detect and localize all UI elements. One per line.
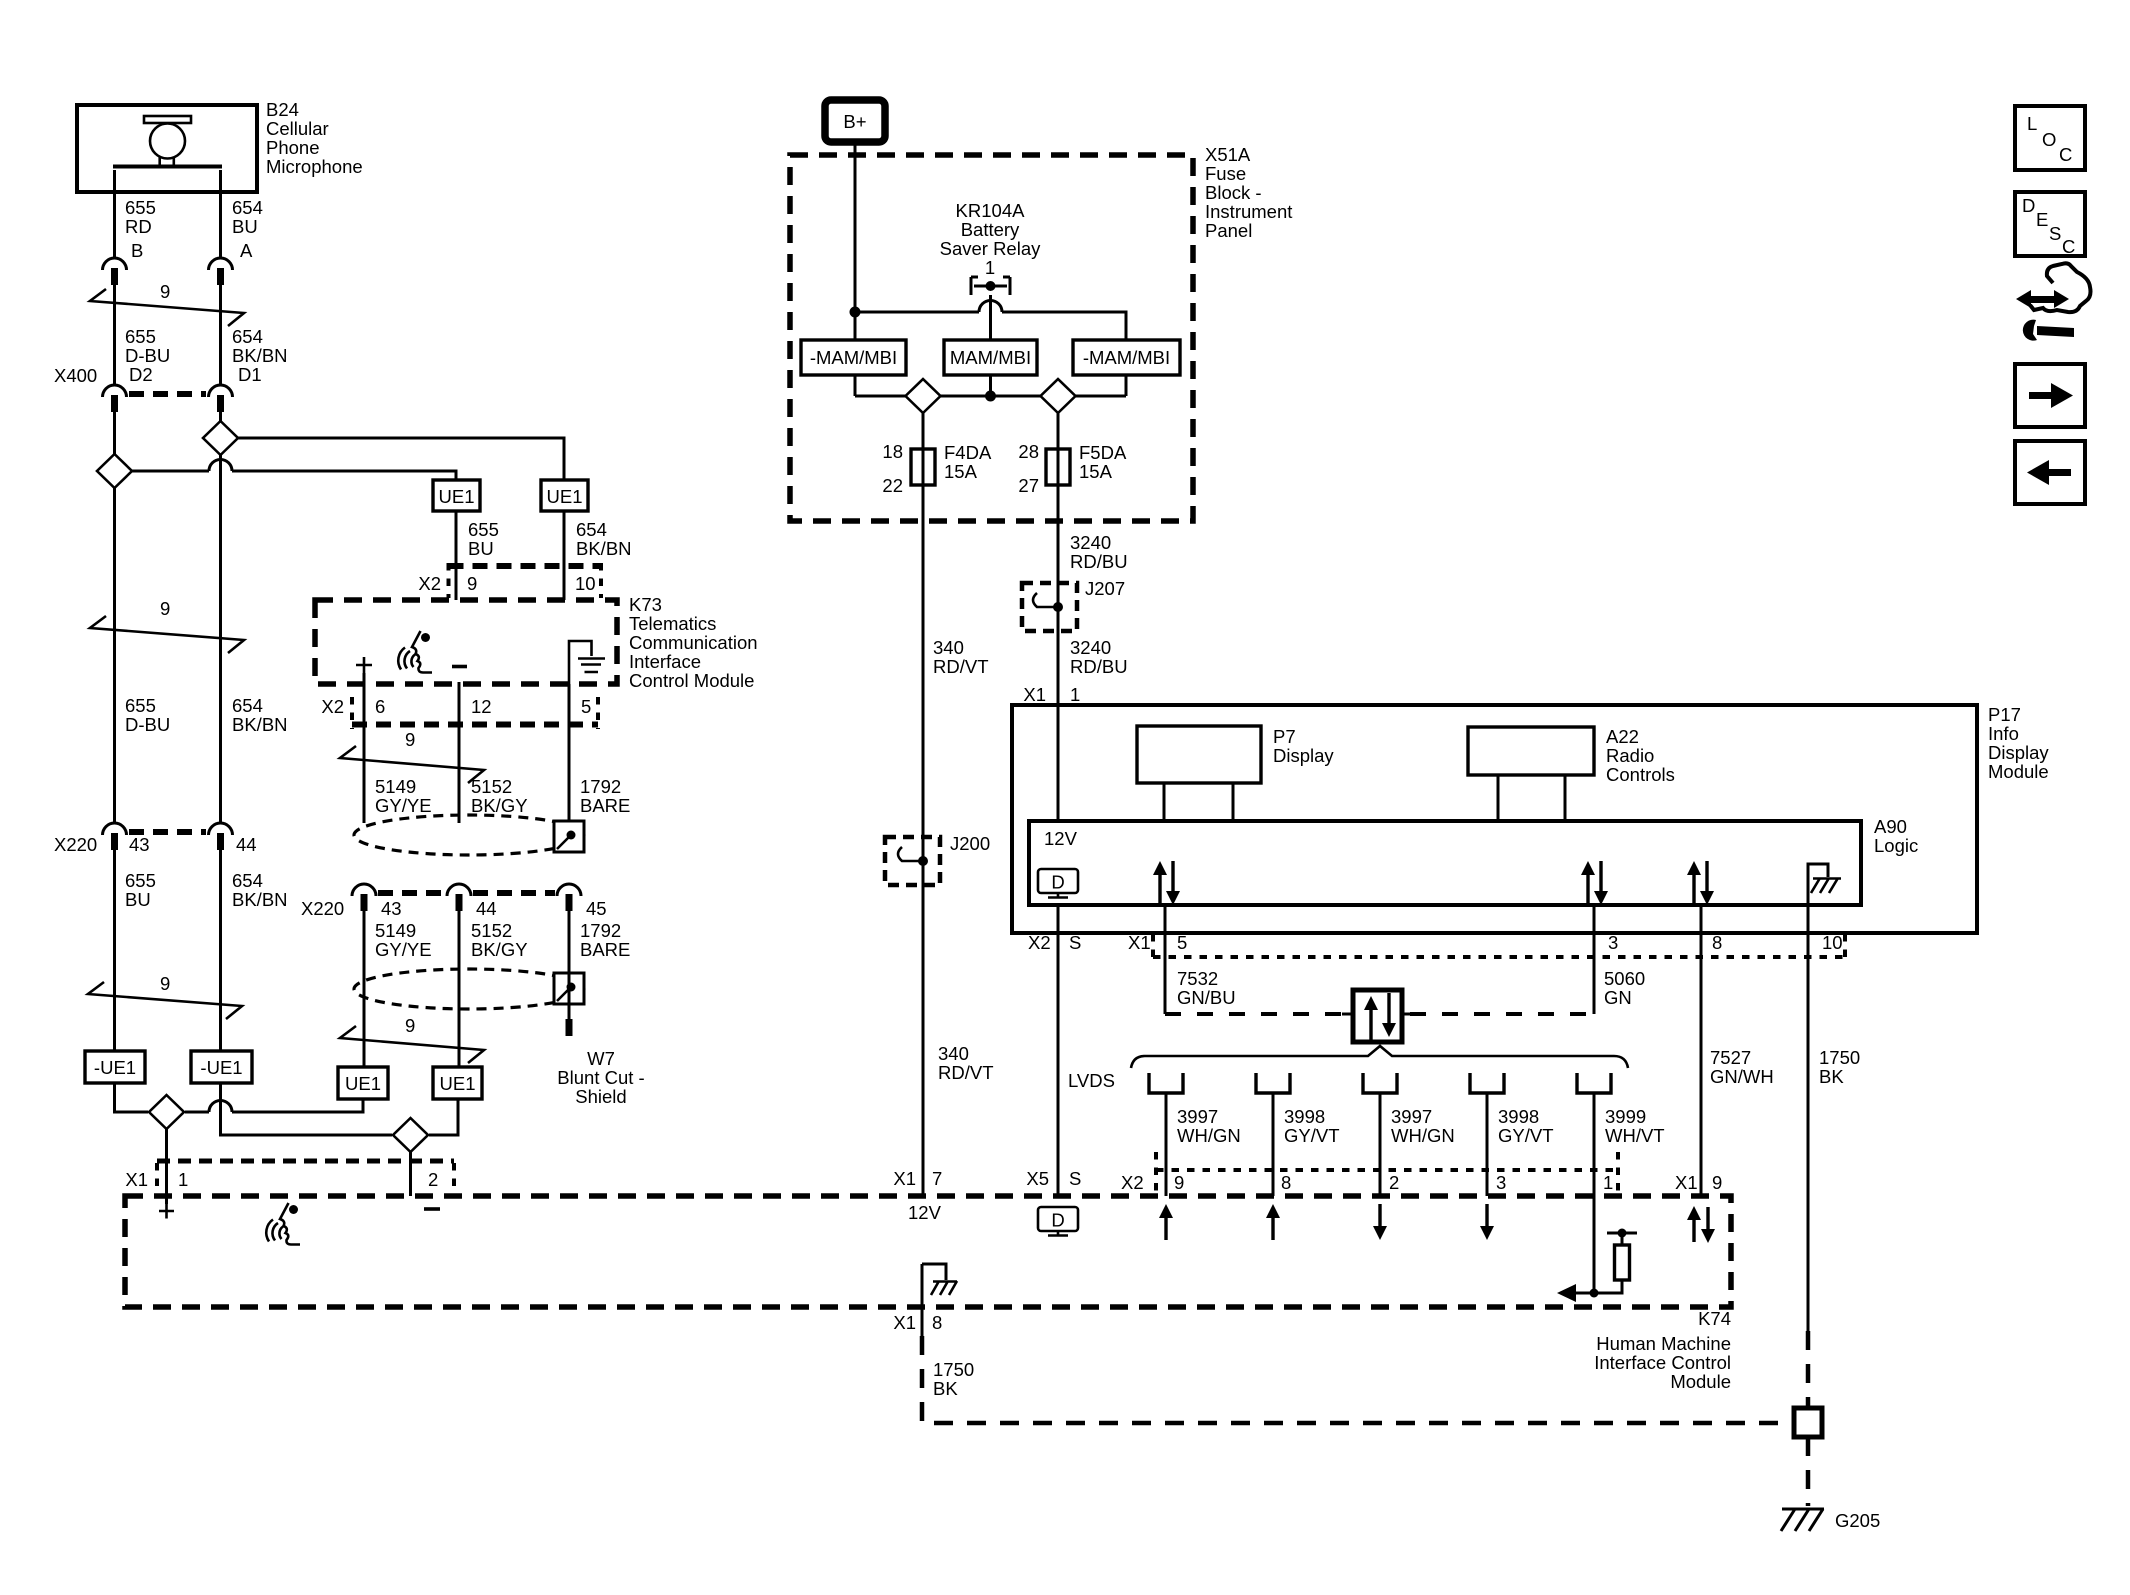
- svg-text:12: 12: [471, 696, 492, 717]
- svg-text:7532: 7532: [1177, 968, 1218, 989]
- svg-text:BK: BK: [1819, 1066, 1844, 1087]
- svg-text:3240: 3240: [1070, 637, 1111, 658]
- svg-text:GY/VT: GY/VT: [1498, 1125, 1554, 1146]
- svg-text:LVDS: LVDS: [1068, 1070, 1115, 1091]
- svg-text:9: 9: [405, 1015, 415, 1036]
- svg-text:6: 6: [375, 696, 385, 717]
- svg-text:X2: X2: [1121, 1172, 1144, 1193]
- svg-text:Human Machine: Human Machine: [1596, 1333, 1731, 1354]
- svg-text:B: B: [131, 240, 143, 261]
- svg-text:P7: P7: [1273, 726, 1296, 747]
- svg-text:655: 655: [125, 870, 156, 891]
- svg-text:BK/GY: BK/GY: [471, 795, 528, 816]
- svg-text:3998: 3998: [1498, 1106, 1539, 1127]
- svg-text:8: 8: [1281, 1172, 1291, 1193]
- svg-text:655: 655: [125, 197, 156, 218]
- svg-text:1792: 1792: [580, 920, 621, 941]
- svg-text:7: 7: [932, 1168, 942, 1189]
- svg-text:5: 5: [1177, 932, 1187, 953]
- svg-text:Module: Module: [1988, 761, 2049, 782]
- svg-text:Communication: Communication: [629, 632, 758, 653]
- svg-text:3998: 3998: [1284, 1106, 1325, 1127]
- svg-text:UE1: UE1: [345, 1073, 381, 1094]
- svg-text:BK/BN: BK/BN: [576, 538, 632, 559]
- svg-text:P17: P17: [1988, 704, 2021, 725]
- svg-text:22: 22: [882, 475, 903, 496]
- svg-text:X1: X1: [893, 1312, 916, 1333]
- svg-text:28: 28: [1018, 441, 1039, 462]
- svg-text:X1: X1: [1128, 932, 1151, 953]
- svg-text:Fuse: Fuse: [1205, 163, 1246, 184]
- svg-text:15A: 15A: [944, 461, 978, 482]
- svg-text:340: 340: [938, 1043, 969, 1064]
- svg-text:1792: 1792: [580, 776, 621, 797]
- svg-text:RD/BU: RD/BU: [1070, 551, 1128, 572]
- svg-text:RD/VT: RD/VT: [938, 1062, 994, 1083]
- svg-text:Logic: Logic: [1874, 835, 1918, 856]
- svg-text:654: 654: [232, 870, 263, 891]
- svg-text:655: 655: [125, 326, 156, 347]
- svg-text:3: 3: [1608, 932, 1618, 953]
- svg-text:B24: B24: [266, 99, 299, 120]
- svg-text:D-BU: D-BU: [125, 714, 170, 735]
- svg-text:A: A: [240, 240, 253, 261]
- svg-text:Phone: Phone: [266, 137, 320, 158]
- svg-text:WH/GN: WH/GN: [1177, 1125, 1241, 1146]
- svg-text:-MAM/MBI: -MAM/MBI: [1083, 347, 1170, 368]
- svg-text:E: E: [2036, 209, 2048, 230]
- svg-text:L: L: [2027, 113, 2037, 134]
- svg-text:GY/YE: GY/YE: [375, 795, 432, 816]
- svg-text:A22: A22: [1606, 726, 1639, 747]
- svg-text:KR104A: KR104A: [956, 200, 1026, 221]
- svg-text:BK: BK: [933, 1378, 958, 1399]
- svg-text:WH/VT: WH/VT: [1605, 1125, 1665, 1146]
- svg-text:RD/BU: RD/BU: [1070, 656, 1128, 677]
- svg-text:10: 10: [1822, 932, 1843, 953]
- svg-text:3240: 3240: [1070, 532, 1111, 553]
- svg-text:9: 9: [1174, 1172, 1184, 1193]
- svg-text:9: 9: [160, 598, 170, 619]
- svg-text:1: 1: [178, 1169, 188, 1190]
- svg-text:RD: RD: [125, 216, 152, 237]
- svg-text:UE1: UE1: [439, 486, 475, 507]
- svg-text:Instrument: Instrument: [1205, 201, 1292, 222]
- svg-text:10: 10: [575, 573, 596, 594]
- svg-text:5149: 5149: [375, 776, 416, 797]
- svg-text:340: 340: [933, 637, 964, 658]
- svg-text:Interface Control: Interface Control: [1594, 1352, 1731, 1373]
- svg-text:X220: X220: [301, 898, 344, 919]
- svg-text:S: S: [1069, 1168, 1081, 1189]
- svg-text:D1: D1: [238, 364, 262, 385]
- svg-text:GN/BU: GN/BU: [1177, 987, 1236, 1008]
- svg-text:Saver Relay: Saver Relay: [940, 238, 1042, 259]
- svg-text:S: S: [1069, 932, 1081, 953]
- svg-text:GN/WH: GN/WH: [1710, 1066, 1774, 1087]
- svg-text:X1: X1: [125, 1169, 148, 1190]
- svg-text:654: 654: [232, 197, 263, 218]
- svg-text:J200: J200: [950, 833, 990, 854]
- svg-text:X1: X1: [1023, 684, 1046, 705]
- svg-text:X51A: X51A: [1205, 144, 1251, 165]
- svg-text:K74: K74: [1698, 1308, 1731, 1329]
- svg-text:1750: 1750: [1819, 1047, 1860, 1068]
- svg-text:3: 3: [1496, 1172, 1506, 1193]
- svg-text:-MAM/MBI: -MAM/MBI: [810, 347, 897, 368]
- svg-text:Microphone: Microphone: [266, 156, 363, 177]
- svg-text:655: 655: [468, 519, 499, 540]
- svg-text:Block -: Block -: [1205, 182, 1262, 203]
- svg-text:43: 43: [381, 898, 402, 919]
- svg-text:BK/BN: BK/BN: [232, 889, 288, 910]
- svg-text:9: 9: [160, 973, 170, 994]
- svg-text:BU: BU: [125, 889, 151, 910]
- svg-text:G205: G205: [1835, 1510, 1880, 1531]
- svg-text:F5DA: F5DA: [1079, 442, 1127, 463]
- svg-text:C: C: [2062, 236, 2075, 257]
- svg-text:J207: J207: [1085, 578, 1125, 599]
- svg-text:1: 1: [1070, 684, 1080, 705]
- svg-text:5152: 5152: [471, 920, 512, 941]
- svg-text:43: 43: [129, 834, 150, 855]
- svg-text:12V: 12V: [908, 1202, 942, 1223]
- svg-text:Display: Display: [1273, 745, 1334, 766]
- svg-text:Telematics: Telematics: [629, 613, 716, 634]
- svg-text:B+: B+: [843, 111, 866, 132]
- svg-text:2: 2: [1389, 1172, 1399, 1193]
- svg-text:654: 654: [232, 326, 263, 347]
- svg-text:Control Module: Control Module: [629, 670, 754, 691]
- svg-text:X2: X2: [321, 696, 344, 717]
- svg-text:UE1: UE1: [440, 1073, 476, 1094]
- svg-text:WH/GN: WH/GN: [1391, 1125, 1455, 1146]
- svg-text:BU: BU: [232, 216, 258, 237]
- svg-text:1: 1: [985, 257, 995, 278]
- svg-text:Info: Info: [1988, 723, 2019, 744]
- svg-text:A90: A90: [1874, 816, 1907, 837]
- svg-text:45: 45: [586, 898, 607, 919]
- svg-text:D-BU: D-BU: [125, 345, 170, 366]
- svg-text:44: 44: [236, 834, 257, 855]
- svg-text:5060: 5060: [1604, 968, 1645, 989]
- svg-text:8: 8: [932, 1312, 942, 1333]
- svg-text:44: 44: [476, 898, 497, 919]
- svg-text:Panel: Panel: [1205, 220, 1252, 241]
- svg-text:Blunt Cut -: Blunt Cut -: [557, 1067, 644, 1088]
- svg-text:15A: 15A: [1079, 461, 1113, 482]
- svg-text:X2: X2: [1028, 932, 1051, 953]
- svg-text:BK/BN: BK/BN: [232, 345, 288, 366]
- svg-text:Controls: Controls: [1606, 764, 1675, 785]
- svg-text:Interface: Interface: [629, 651, 701, 672]
- svg-text:X1: X1: [893, 1168, 916, 1189]
- svg-text:12V: 12V: [1044, 828, 1078, 849]
- svg-text:Module: Module: [1670, 1371, 1731, 1392]
- svg-text:655: 655: [125, 695, 156, 716]
- svg-text:BARE: BARE: [580, 939, 630, 960]
- svg-text:2: 2: [428, 1169, 438, 1190]
- svg-text:MAM/MBI: MAM/MBI: [950, 347, 1031, 368]
- svg-text:X1: X1: [1675, 1172, 1698, 1193]
- svg-text:3997: 3997: [1177, 1106, 1218, 1127]
- svg-text:O: O: [2042, 129, 2056, 150]
- svg-text:-UE1: -UE1: [200, 1057, 242, 1078]
- svg-text:D: D: [2022, 195, 2035, 216]
- svg-text:9: 9: [467, 573, 477, 594]
- svg-text:-UE1: -UE1: [94, 1057, 136, 1078]
- svg-text:S: S: [2049, 223, 2061, 244]
- svg-text:X2: X2: [418, 573, 441, 594]
- svg-text:BK/BN: BK/BN: [232, 714, 288, 735]
- svg-text:GN: GN: [1604, 987, 1632, 1008]
- svg-text:8: 8: [1712, 932, 1722, 953]
- svg-text:C: C: [2059, 144, 2072, 165]
- svg-text:K73: K73: [629, 594, 662, 615]
- svg-text:Shield: Shield: [575, 1086, 626, 1107]
- svg-text:5: 5: [581, 696, 591, 717]
- svg-text:18: 18: [882, 441, 903, 462]
- svg-text:D2: D2: [129, 364, 153, 385]
- svg-text:9: 9: [405, 729, 415, 750]
- svg-text:Battery: Battery: [961, 219, 1020, 240]
- svg-text:654: 654: [576, 519, 607, 540]
- svg-text:3997: 3997: [1391, 1106, 1432, 1127]
- svg-text:GY/VT: GY/VT: [1284, 1125, 1340, 1146]
- svg-text:Cellular: Cellular: [266, 118, 329, 139]
- svg-text:W7: W7: [587, 1048, 615, 1069]
- svg-text:27: 27: [1018, 475, 1039, 496]
- svg-text:BARE: BARE: [580, 795, 630, 816]
- svg-text:RD/VT: RD/VT: [933, 656, 989, 677]
- svg-text:1750: 1750: [933, 1359, 974, 1380]
- svg-text:5149: 5149: [375, 920, 416, 941]
- svg-text:9: 9: [1712, 1172, 1722, 1193]
- svg-text:Display: Display: [1988, 742, 2049, 763]
- svg-text:7527: 7527: [1710, 1047, 1751, 1068]
- svg-text:BK/GY: BK/GY: [471, 939, 528, 960]
- svg-text:BU: BU: [468, 538, 494, 559]
- svg-text:Radio: Radio: [1606, 745, 1654, 766]
- svg-text:654: 654: [232, 695, 263, 716]
- svg-text:X5: X5: [1026, 1168, 1049, 1189]
- svg-text:5152: 5152: [471, 776, 512, 797]
- svg-text:9: 9: [160, 281, 170, 302]
- svg-text:1: 1: [1603, 1172, 1613, 1193]
- svg-text:UE1: UE1: [547, 486, 583, 507]
- svg-text:F4DA: F4DA: [944, 442, 992, 463]
- svg-text:GY/YE: GY/YE: [375, 939, 432, 960]
- svg-text:X220: X220: [54, 834, 97, 855]
- svg-text:X400: X400: [54, 365, 97, 386]
- svg-text:3999: 3999: [1605, 1106, 1646, 1127]
